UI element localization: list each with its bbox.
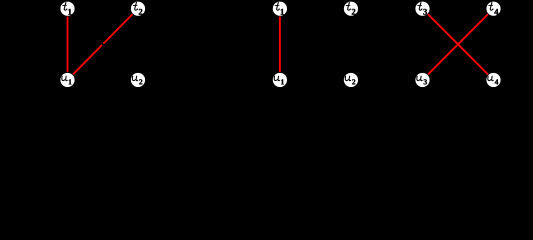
wire: graph A matching edge t2-u1 (red) <box>68 9 139 80</box>
node t2 (graph A) <box>131 1 146 16</box>
node t3 (graph B) <box>415 1 430 16</box>
node u4 (graph B) <box>486 72 501 87</box>
wire: graph B matching edge t1-u1 (red) <box>279 9 281 80</box>
node u2 (graph B) <box>343 72 358 87</box>
node u1 (graph A) <box>60 72 75 87</box>
node t1 (graph A) <box>60 1 75 16</box>
node u3 (graph B) <box>415 72 430 87</box>
wire: graph B matching edge t3-u4 (red) <box>423 9 494 80</box>
node t4 (graph B) <box>486 1 501 16</box>
node t1 (graph B) <box>272 1 287 16</box>
wire: graph A non-matching edge t1-u2 (black) <box>68 9 139 80</box>
wire: graph A matching edge t1-u1 (red) <box>67 9 69 80</box>
node u1 (graph B) <box>272 72 287 87</box>
wire: graph B matching edge t4-u3 (red) <box>423 9 494 80</box>
node t2 (graph B) <box>343 1 358 16</box>
node u2 (graph A) <box>131 72 146 87</box>
